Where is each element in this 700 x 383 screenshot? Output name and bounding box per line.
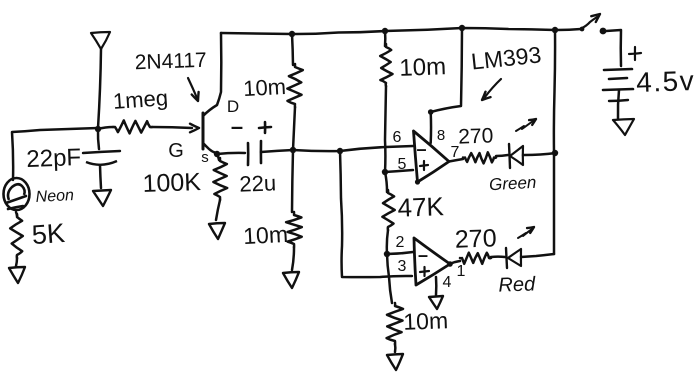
svg-text:–: – bbox=[418, 245, 428, 265]
svg-text:6: 6 bbox=[393, 129, 402, 146]
svg-text:2N4117: 2N4117 bbox=[134, 49, 207, 74]
svg-text:s: s bbox=[201, 149, 209, 166]
svg-text:47K: 47K bbox=[397, 191, 445, 223]
svg-text:Neon: Neon bbox=[35, 187, 74, 206]
svg-text:5K: 5K bbox=[31, 218, 66, 250]
svg-text:10m: 10m bbox=[243, 74, 287, 101]
svg-text:100K: 100K bbox=[142, 168, 202, 198]
svg-text:270: 270 bbox=[458, 124, 494, 148]
svg-text:10m: 10m bbox=[243, 221, 289, 249]
svg-text:–: – bbox=[416, 139, 426, 159]
svg-text:1meg: 1meg bbox=[112, 85, 169, 114]
svg-text:22u: 22u bbox=[239, 170, 277, 196]
svg-text:22pF: 22pF bbox=[26, 144, 82, 173]
svg-text:3: 3 bbox=[398, 258, 407, 275]
svg-text:8: 8 bbox=[437, 127, 445, 144]
svg-text:G: G bbox=[168, 140, 184, 162]
svg-text:Red: Red bbox=[498, 273, 536, 296]
svg-text:5: 5 bbox=[398, 156, 407, 173]
svg-text:10m: 10m bbox=[399, 53, 447, 82]
svg-text:10m: 10m bbox=[403, 307, 449, 335]
svg-text:4: 4 bbox=[443, 274, 452, 291]
svg-text:1: 1 bbox=[457, 263, 466, 280]
svg-text:270: 270 bbox=[454, 224, 497, 253]
svg-text:–: – bbox=[231, 114, 243, 139]
svg-text:Green: Green bbox=[489, 173, 537, 194]
svg-text:2: 2 bbox=[396, 234, 405, 251]
svg-text:4.5v: 4.5v bbox=[636, 65, 696, 98]
